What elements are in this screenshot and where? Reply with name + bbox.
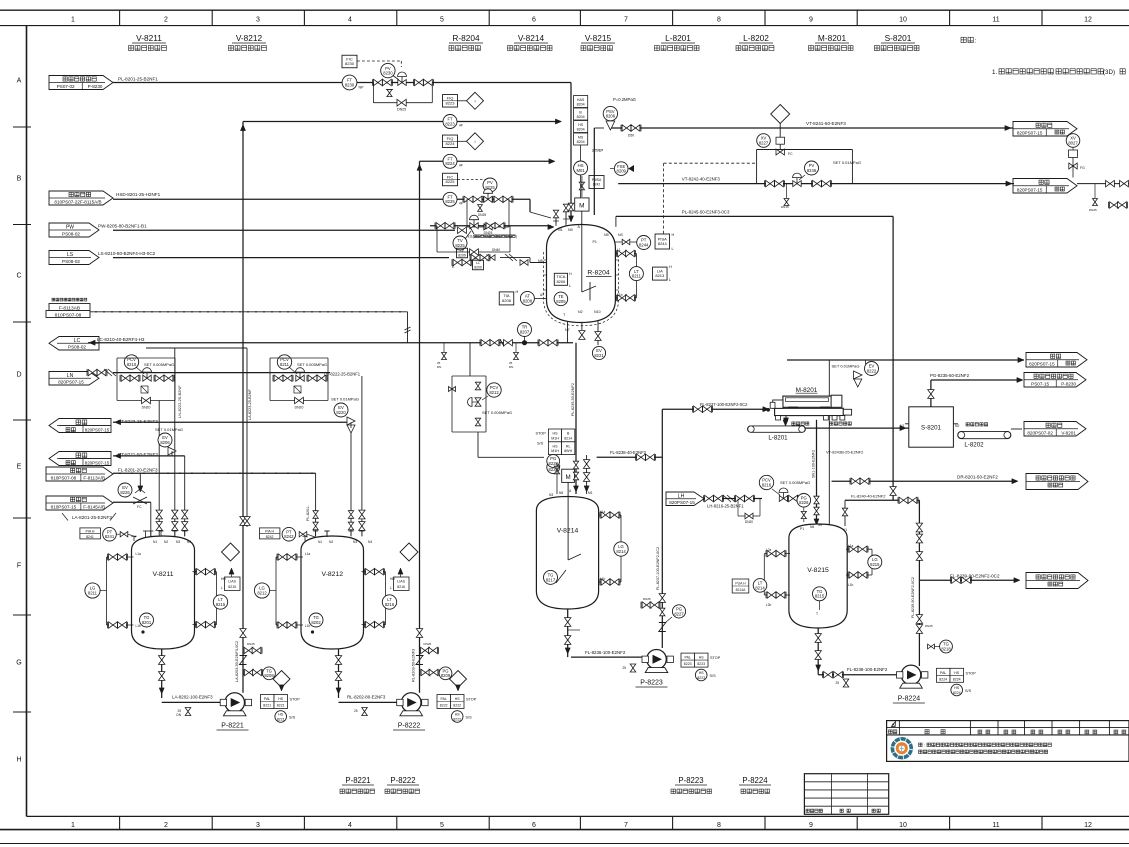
svg-text:P-8230: P-8230 [1061, 381, 1076, 386]
drain valve under P-8224 [843, 679, 849, 687]
svg-text:8226: 8226 [120, 490, 130, 495]
vessel top nozzle marks V-8211 [150, 531, 152, 537]
svg-text:8201: 8201 [142, 620, 152, 625]
revision table [887, 721, 1129, 762]
svg-text:S-8201: S-8201 [885, 33, 912, 43]
svg-text:H: H [516, 290, 519, 294]
svg-text:LS: LS [67, 252, 74, 258]
svg-text:S/S: S/S [537, 442, 544, 446]
svg-text:LIAS: LIAS [228, 580, 236, 584]
drain stubs under y343 [443, 343, 445, 352]
svg-text:8242: 8242 [284, 534, 294, 539]
svg-text:MS: MS [578, 135, 584, 139]
svg-text:VT-8243B-25-E2NF2: VT-8243B-25-E2NF2 [826, 450, 864, 455]
svg-text:L: L [669, 278, 671, 282]
svg-text:L1a: L1a [305, 552, 311, 556]
conveyor L-8202 [958, 431, 1011, 438]
pump P-8221 [225, 693, 245, 713]
svg-text:V-8212: V-8212 [236, 33, 263, 43]
pipe LC letdown line y343 [88, 342, 573, 344]
svg-text:PW-8205-80-B2NF1-B1: PW-8205-80-B2NF1-B1 [98, 224, 147, 229]
svg-text:8209: 8209 [474, 266, 482, 270]
pipe V-8214 top feed x586 [586, 455, 588, 494]
svg-text:P=0.2MPaG: P=0.2MPaG [613, 97, 636, 102]
svg-text:2: 2 [164, 822, 168, 829]
pipe V-8211 bottom drop x161 [161, 649, 163, 698]
svg-text:PIA H: PIA H [265, 529, 274, 533]
pipe branch to EV8226 x140 [139, 473, 141, 490]
pipe PL-8245 line y216 [616, 215, 893, 217]
svg-text:4F: 4F [459, 163, 463, 167]
svg-text:8204: 8204 [577, 115, 585, 119]
reactor top nozzle valves [553, 210, 558, 218]
svg-text:8224: 8224 [953, 677, 961, 681]
svg-text:8221: 8221 [263, 704, 271, 708]
svg-text:8220: 8220 [336, 410, 346, 415]
svg-text:6: 6 [532, 17, 536, 24]
svg-text:820PS07-15: 820PS07-15 [1017, 187, 1043, 192]
svg-text:8WH: 8WH [564, 449, 572, 453]
outlet label vent to vacuum pump P-8230 [1024, 373, 1086, 388]
svg-text:SET 0.01MPaG: SET 0.01MPaG [832, 364, 860, 369]
svg-text:8204: 8204 [577, 102, 585, 106]
svg-text:HS: HS [455, 697, 461, 701]
svg-text:8206: 8206 [160, 440, 170, 445]
svg-text:8204: 8204 [577, 127, 585, 131]
svg-text:3: 3 [256, 822, 260, 829]
svg-text:25: 25 [835, 681, 839, 685]
svg-text:P-8223: P-8223 [640, 680, 663, 687]
svg-text:8222: 8222 [453, 704, 461, 708]
pipe V-8215 bottom drop x818 [817, 626, 819, 675]
svg-text:LN: LN [67, 373, 74, 379]
V-8214 drain cluster [568, 629, 580, 631]
vessel V-8214 [536, 497, 598, 610]
instrument FT8230 [342, 75, 357, 90]
notes header [961, 37, 973, 42]
svg-text:V-8211: V-8211 [136, 33, 162, 43]
svg-text:DN20: DN20 [295, 406, 304, 410]
svg-text:8223: 8223 [697, 676, 705, 680]
svg-text:L1b: L1b [617, 293, 623, 297]
pipe wash riser x919 [918, 500, 920, 666]
svg-text:8206: 8206 [556, 279, 566, 284]
instrument TIA8208 box [499, 292, 514, 305]
svg-text:V1: V1 [843, 528, 847, 532]
outlet label wash water to sewer 2 [1026, 573, 1088, 589]
instrument FIC8225 [443, 173, 458, 186]
svg-text:8225: 8225 [446, 179, 456, 184]
svg-text:P-8224: P-8224 [742, 776, 768, 785]
svg-text:8224: 8224 [445, 161, 455, 166]
instrument PG8227 [672, 605, 685, 618]
svg-text:S-8201: S-8201 [921, 425, 942, 432]
PCV8216 bypass DN20 [737, 499, 739, 517]
outlet label vent gas header 3 [1026, 353, 1087, 368]
drain valve DN25 under P-8222 suction [362, 708, 368, 716]
svg-text:S/S: S/S [710, 674, 717, 678]
pipe vent header y183 [618, 183, 1014, 185]
reactor N8 entry valves [471, 254, 480, 260]
svg-text:8215: 8215 [815, 594, 825, 599]
vessel V-8211 [132, 536, 195, 649]
pipe FL-8239 branch y580 [919, 579, 1017, 581]
svg-text:PL-8201-25-B2NF1: PL-8201-25-B2NF1 [118, 77, 158, 82]
V-8214 header extra valves [573, 461, 578, 469]
svg-text:PAL: PAL [685, 656, 691, 660]
instrument EV8222 relief [865, 362, 879, 376]
svg-text:D50: D50 [628, 134, 634, 138]
svg-text:SET 0.005MPaG: SET 0.005MPaG [144, 362, 174, 367]
level alarm box LIASH8215 [225, 577, 241, 591]
svg-text:LIAS: LIAS [397, 580, 405, 584]
instrument PV8230 [381, 63, 395, 77]
svg-text:): ) [516, 235, 517, 239]
instrument PG8226 [797, 494, 811, 508]
svg-text:8222: 8222 [453, 717, 461, 721]
pipe FT8225 steam condensate line y199 [113, 198, 530, 200]
pipe PW line y230 [113, 229, 455, 231]
svg-text:HS: HS [578, 123, 584, 127]
svg-text:8223: 8223 [446, 100, 456, 105]
svg-text:A: A [17, 77, 22, 84]
svg-text:8242: 8242 [266, 535, 274, 539]
svg-text:LA-8223-25-B2NF: LA-8223-25-B2NF [248, 389, 252, 420]
svg-text:L2a: L2a [766, 548, 772, 552]
svg-text:8227: 8227 [759, 140, 769, 145]
svg-text:810PS07-22F-8115A/B: 810PS07-22F-8115A/B [54, 199, 101, 204]
svg-text:2: 2 [164, 17, 168, 24]
svg-text:N3: N3 [353, 540, 357, 544]
V-8214 agitator FG [547, 461, 560, 474]
instrument TV8225 [453, 236, 467, 250]
svg-text:8224: 8224 [953, 691, 961, 695]
svg-text:8223: 8223 [445, 121, 455, 126]
strainer on PCV8210 loop [141, 386, 148, 393]
svg-text:V-8211: V-8211 [152, 571, 173, 578]
svg-text:11: 11 [992, 822, 999, 829]
svg-text:N3: N3 [176, 540, 180, 544]
pipe vent drop to V-8212 x351 [350, 428, 352, 536]
svg-text:8218: 8218 [941, 646, 951, 651]
svg-text:NP: NP [359, 86, 365, 90]
valve DN50 on y128 [622, 125, 631, 131]
pipe PCV8212 lower line y457 [478, 456, 544, 458]
valve on DR line [851, 478, 860, 484]
svg-text:L: L [390, 586, 392, 590]
svg-text:DN25: DN25 [925, 624, 933, 628]
svg-text:H: H [672, 233, 675, 237]
svg-text:L1a: L1a [600, 510, 606, 514]
pipe R-8204 feed line y161 from P-8222 [420, 160, 552, 162]
svg-text:V-8215: V-8215 [585, 33, 612, 43]
svg-text:PG-8235-50-E2NF2: PG-8235-50-E2NF2 [930, 373, 970, 378]
strainer on PCV8211 loop [294, 386, 301, 393]
diamond arrester 230.5 [222, 543, 240, 561]
pump P-8224 interlock boxes [937, 668, 951, 682]
svg-text:8: 8 [717, 17, 721, 24]
svg-text:DN25: DN25 [424, 642, 432, 646]
svg-text:PS08-02: PS08-02 [68, 344, 86, 349]
svg-text:8027: 8027 [1068, 140, 1078, 145]
svg-text:(3D): (3D) [1103, 69, 1115, 76]
svg-text:8244: 8244 [639, 242, 649, 247]
bypass loop PCV8211 [269, 358, 271, 401]
svg-text:G: G [16, 659, 21, 666]
pressure cluster V-8212 top [259, 528, 280, 539]
pipe vertical x247 [246, 348, 248, 527]
svg-text:8241: 8241 [105, 534, 115, 539]
svg-text:8242: 8242 [593, 183, 601, 187]
svg-text:FL-8238-40-E2NF2: FL-8238-40-E2NF2 [610, 450, 647, 455]
svg-text:8214: 8214 [564, 436, 572, 440]
svg-text:L-8202: L-8202 [743, 33, 769, 43]
svg-text:8244: 8244 [658, 241, 668, 246]
svg-text:V-8201: V-8201 [1061, 430, 1076, 435]
svg-text:FL-8237-100-E2NF2-0C2: FL-8237-100-E2NF2-0C2 [700, 402, 748, 407]
pipe riser V-8211 x174 [174, 348, 176, 536]
diamond arrester 409 [400, 543, 418, 561]
control valve EV8226 [133, 497, 147, 504]
svg-text:PS08-02: PS08-02 [62, 259, 80, 264]
svg-text:N5: N5 [604, 233, 609, 237]
svg-text:PS08-02: PS08-02 [62, 231, 80, 236]
svg-text:N2: N2 [578, 310, 583, 314]
control valve PV8230 on line y82 [398, 80, 406, 86]
svg-text:820PS07-15: 820PS07-15 [85, 460, 110, 465]
svg-text:FL-8238-100-E2NF2: FL-8238-100-E2NF2 [847, 667, 888, 672]
svg-text:DN25: DN25 [397, 108, 406, 112]
valve on FL-8240 [899, 497, 908, 503]
svg-text:V-8212: V-8212 [321, 571, 343, 578]
svg-text:FL-8237-100-E2NF2-0C2: FL-8237-100-E2NF2-0C2 [656, 547, 660, 590]
inlet label F-8113AB 810PS07-08 [49, 304, 90, 311]
svg-text:HAS: HAS [577, 98, 585, 102]
pipe S-8201 outlet y429 [953, 423, 958, 425]
svg-text:E: E [17, 463, 22, 470]
pump P-8221 interlock boxes [261, 695, 275, 709]
pump P-8223 interlock boxes [681, 653, 695, 667]
discharge riser fittings P-8222 [416, 629, 422, 638]
svg-text:N4: N4 [368, 540, 372, 544]
svg-text:P-8223: P-8223 [678, 776, 703, 785]
svg-text:8205: 8205 [556, 299, 566, 304]
svg-text:LH-8216-25-B2NF1: LH-8216-25-B2NF1 [707, 504, 744, 509]
svg-text:LH: LH [678, 493, 685, 499]
thermowell TG8202 [309, 613, 323, 627]
svg-text:F-8113A/B: F-8113A/B [83, 475, 105, 480]
instrument EV8220 relief [334, 403, 348, 417]
svg-text:AT: AT [540, 293, 544, 297]
instrument PG8209 [439, 667, 452, 680]
svg-text:12: 12 [1084, 17, 1092, 24]
svg-text:LL: LL [476, 261, 480, 265]
svg-text:P1: P1 [800, 527, 804, 531]
V-8214 thermowell TG8217 [544, 570, 558, 584]
reactor feed flange ticks [553, 220, 559, 222]
company logo [891, 737, 913, 759]
pipe R-8204 feed line y121 from P-8221 [243, 121, 558, 123]
discharge riser fittings P-8221 [240, 629, 246, 638]
svg-text:8222: 8222 [867, 368, 877, 373]
pipe PSV riser x594 [593, 128, 595, 215]
svg-text:C: C [16, 272, 21, 279]
pipe V-8214 bottom drop x567 [567, 609, 569, 657]
valves and PV8246 on vent header y183 [766, 180, 775, 186]
svg-text:PAL: PAL [940, 671, 946, 675]
pipe LN line y372 [113, 372, 330, 374]
svg-text:DN20: DN20 [142, 406, 151, 410]
drain under PV8246 [786, 184, 788, 198]
P-8223 suction fittings on riser x662 [659, 594, 665, 603]
svg-text:810PS07-08: 810PS07-08 [51, 475, 77, 480]
black dot valve on y343 [522, 340, 527, 345]
svg-text:S/S: S/S [965, 689, 972, 693]
outlet label LC PS09-02 [49, 337, 99, 351]
svg-text:8202: 8202 [311, 620, 321, 625]
instrument FIQ8223 [443, 95, 458, 108]
pipe L-8201 to S-8201 y428 [762, 427, 909, 429]
svg-text:8207: 8207 [520, 329, 530, 334]
svg-text:P-8221: P-8221 [221, 723, 244, 730]
svg-text:P-8230: P-8230 [88, 84, 103, 89]
label LH 820PS07-15 [666, 492, 704, 506]
svg-text:HS: HS [699, 671, 705, 675]
pipe F-8113AB drop x407 [407, 312, 409, 343]
instrument LIA8213 [653, 267, 668, 280]
pipe LA-8223 line y348 [146, 347, 247, 349]
svg-text:8209: 8209 [617, 169, 627, 174]
svg-text:LA-8201-25-E2NF3: LA-8201-25-E2NF3 [72, 515, 112, 520]
svg-text:8208: 8208 [523, 298, 533, 303]
pipe M-8201 to L-8201 drop x785 [785, 420, 787, 426]
dryer S-8201 [909, 407, 954, 447]
inlet label LN 820PS07-15 [49, 372, 99, 386]
diamond I8203 [273, 671, 290, 688]
inlet label PW PS09-02 [49, 223, 99, 237]
svg-text:R-8204: R-8204 [452, 33, 480, 43]
instrument FIQ8224 [443, 135, 458, 148]
svg-text:HS: HS [455, 713, 461, 717]
valves on LN line entry [88, 369, 97, 375]
svg-text:V-8214: V-8214 [557, 528, 579, 535]
svg-text:N1: N1 [558, 228, 563, 232]
svg-text:820PS07-15: 820PS07-15 [58, 379, 84, 384]
pressure cluster V-8211 top [80, 528, 101, 539]
svg-text:N1: N1 [900, 424, 904, 428]
pipe signal dashed y163 [664, 162, 757, 164]
vessel top nozzle marks V-8212 [315, 531, 317, 537]
pipe LS line y257 [113, 257, 449, 259]
svg-text:8211: 8211 [632, 274, 642, 279]
svg-text:8215: 8215 [216, 602, 226, 607]
svg-text:SET 0.01MPaG: SET 0.01MPaG [833, 160, 861, 165]
instrument AT8208 [520, 291, 534, 305]
outlet label vent gas header right [1013, 179, 1077, 194]
svg-text:6: 6 [532, 822, 536, 829]
svg-text::: : [975, 38, 977, 45]
pipe thick syrup line y473 with flanged dots [113, 472, 316, 474]
svg-text:PW: PW [66, 225, 74, 231]
pipe FL-8237 line y409 to centrifuge [662, 408, 766, 410]
svg-text:4F: 4F [459, 201, 463, 205]
svg-text:7: 7 [624, 822, 628, 829]
instrument FT8225 [443, 192, 457, 206]
svg-text:N5: N5 [810, 525, 814, 529]
svg-text:H: H [569, 272, 572, 276]
svg-text:820PS07-15: 820PS07-15 [85, 427, 110, 432]
pipe riser from P-8222 [419, 161, 421, 693]
instrument XV8027 station right edge [1066, 134, 1080, 148]
svg-text:PL-8235-50-E2NF2: PL-8235-50-E2NF2 [571, 383, 575, 416]
svg-text:R-8204: R-8204 [587, 270, 610, 277]
svg-text:FC: FC [137, 505, 142, 509]
level gauge LG8212 [276, 556, 303, 558]
pipe P-8223 discharge riser x662 [661, 409, 663, 648]
svg-text:VT-8242-40-E2NF3: VT-8242-40-E2NF3 [682, 177, 721, 182]
svg-text:1.: 1. [992, 69, 997, 76]
pipe M-8201 to V-8215 drop x816 [816, 420, 818, 522]
svg-text:L1b: L1b [600, 577, 606, 581]
centrifuge M-8201 [775, 408, 844, 415]
vessel header valves V-8212 extra [313, 511, 318, 519]
instrument PCV8212 [487, 383, 501, 397]
instrument PCV8216 cluster [759, 475, 773, 489]
svg-text:VT-8241-50-E2NF3: VT-8241-50-E2NF3 [806, 121, 846, 126]
instrument LT8211 [629, 267, 643, 281]
svg-text:N2: N2 [329, 540, 333, 544]
svg-text:8212: 8212 [489, 390, 499, 395]
outlet label vent gas 2 [49, 452, 111, 466]
pipe FL-8240 wash down line y500 [845, 499, 919, 501]
level alarm box LIASH8216 [394, 577, 410, 591]
svg-text:HS: HS [699, 656, 705, 660]
V-8214 agitator interlock boxes [548, 429, 561, 442]
svg-text:TE: TE [460, 249, 465, 253]
svg-text:M-8201: M-8201 [818, 33, 847, 43]
svg-text:S/S: S/S [289, 716, 296, 720]
svg-text:FL-8240-40-E2NF2: FL-8240-40-E2NF2 [851, 494, 886, 499]
inlet label LS PS09-02 [49, 251, 99, 265]
valves on LC line y343 [481, 340, 490, 346]
svg-text:8226: 8226 [799, 500, 809, 505]
svg-text:PIA H: PIA H [86, 529, 95, 533]
pipe PL-8245 drop to V-8215 x893 [892, 216, 894, 500]
svg-text:8221: 8221 [277, 704, 285, 708]
pipe hydrolysate line y502 [113, 501, 151, 503]
svg-text:25: 25 [622, 666, 626, 670]
valves right edge vent header [1077, 183, 1129, 185]
centrifuge solids discharge arrow [785, 416, 787, 421]
svg-text:FL-8236-100-E2NF2: FL-8236-100-E2NF2 [585, 650, 626, 655]
svg-text:PS07-02: PS07-02 [57, 84, 75, 89]
instrument PV8246 [805, 161, 819, 175]
conveyor L-8201 [748, 426, 806, 432]
svg-text:I: I [474, 140, 475, 144]
svg-text:PdISA: PdISA [592, 178, 602, 182]
svg-text:10: 10 [899, 822, 907, 829]
outlet label intermediate to V-8201 [1024, 422, 1086, 437]
level bridle R-8204 [615, 253, 636, 255]
pipe riser V-8211 x159 [158, 401, 160, 537]
pipe S-8201 vent riser x930 [930, 380, 932, 407]
pipe branch x829 vent [828, 360, 830, 526]
level loop V-8214 right [599, 514, 621, 516]
svg-text:B: B [17, 175, 22, 182]
valves DN25 beside riser [642, 602, 651, 608]
valves on PW line [458, 227, 467, 233]
pump P-8223 [647, 650, 667, 670]
